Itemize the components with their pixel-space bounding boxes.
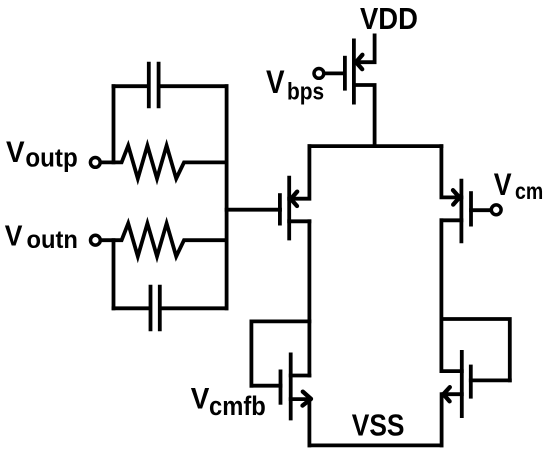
node A right rail of RC network	[225, 86, 229, 308]
svg-text:VDD: VDD	[360, 3, 418, 37]
wire M4 source down	[440, 394, 444, 445]
terminal Voutp	[90, 158, 100, 168]
wire M1 gate lead	[227, 208, 280, 212]
svg-text:VSS: VSS	[352, 409, 405, 443]
wire M1 drain down	[307, 221, 311, 375]
svg-text:V: V	[191, 383, 210, 416]
svg-text:V: V	[6, 136, 25, 169]
capacitor C1	[114, 64, 227, 107]
transistor M3	[291, 374, 310, 378]
svg-text:cmfb: cmfb	[209, 391, 266, 421]
svg-text:outp: outp	[25, 144, 77, 173]
transistor M4	[442, 369, 462, 373]
terminal Voutn	[91, 235, 101, 245]
svg-text:V: V	[266, 65, 285, 100]
wire M3 gate-drain loop	[251, 321, 309, 385]
transistor M1	[289, 146, 309, 199]
wire	[112, 240, 116, 308]
wire top rail	[309, 144, 441, 148]
svg-text:cm: cm	[515, 179, 543, 205]
terminal Vcm	[491, 205, 501, 215]
resistor R1	[102, 146, 227, 179]
wire	[112, 86, 116, 162]
wire M3 source down	[307, 399, 311, 445]
transistor M0	[314, 69, 324, 79]
wire VSS rail	[309, 443, 441, 447]
svg-text:bps: bps	[287, 78, 324, 105]
svg-text:outn: outn	[27, 226, 78, 254]
wire M4 gate-drain loop	[442, 319, 510, 380]
transistor M2	[441, 146, 461, 197]
svg-text:V: V	[5, 219, 23, 251]
wire M2 drain down	[439, 220, 443, 371]
svg-text:V: V	[494, 168, 512, 202]
capacitor C2	[114, 287, 227, 330]
resistor R2	[102, 223, 227, 256]
